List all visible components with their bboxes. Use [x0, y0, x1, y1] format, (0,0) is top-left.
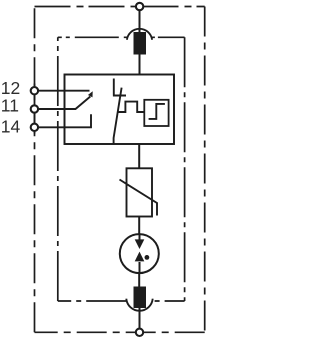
- terminal 12: [31, 87, 38, 94]
- varistor diagonal with tail: [120, 180, 158, 216]
- svg-text:11: 11: [1, 95, 19, 115]
- step symbol inside indicator: [149, 104, 165, 119]
- outer enclosure border (dash-dot rectangle): [35, 7, 205, 333]
- spark gap lower electrode arrow (pointing up): [139, 262, 141, 273]
- wire: to bottom terminal: [139, 308, 141, 332]
- spark gap trigger dot: [145, 255, 150, 260]
- signal linkage wire with pulse bump: [117, 102, 144, 112]
- spark gap upper electrode arrow (pointing down): [139, 234, 141, 240]
- terminal 11: [31, 105, 38, 112]
- terminal: bottom phase terminal: [136, 329, 143, 336]
- wire: disconnector to monitoring box: [139, 55, 141, 75]
- disconnector fuse bar bottom (black rectangle): [134, 287, 147, 309]
- monitoring / disconnection box: [65, 75, 175, 145]
- changeover contact: line 14 (NO) with end stub: [35, 114, 92, 127]
- thermal disconnector fixed contact (L shape): [113, 79, 126, 96]
- wire: top terminal to top disconnector: [139, 7, 141, 33]
- plug-in separation arc (top): [127, 29, 152, 40]
- wire: varistor to spark gap: [138, 217, 140, 236]
- varistor body: [127, 168, 153, 216]
- terminal 14: [31, 124, 38, 131]
- terminal: top phase terminal: [136, 3, 143, 10]
- changeover arrowhead: [88, 91, 93, 97]
- wire: spark gap to bottom disconnector: [138, 273, 140, 287]
- changeover contact: line 12 (NC): [35, 90, 90, 92]
- plug-in separation arc (bottom): [126, 299, 152, 311]
- spark gap circle: [120, 234, 159, 273]
- status indicator box: [144, 100, 168, 126]
- changeover contact: line 11 (common) with moving blade: [35, 97, 91, 110]
- disconnector fuse bar top (black rectangle): [134, 32, 147, 55]
- solid left border segment joining signal terminals: [34, 84, 36, 134]
- inner module border (dashed rectangle, interrupted by plug-in arcs): [58, 37, 185, 301]
- wire: box to varistor: [138, 144, 140, 168]
- thermal disconnector blade: [114, 88, 122, 145]
- svg-text:14: 14: [1, 116, 21, 136]
